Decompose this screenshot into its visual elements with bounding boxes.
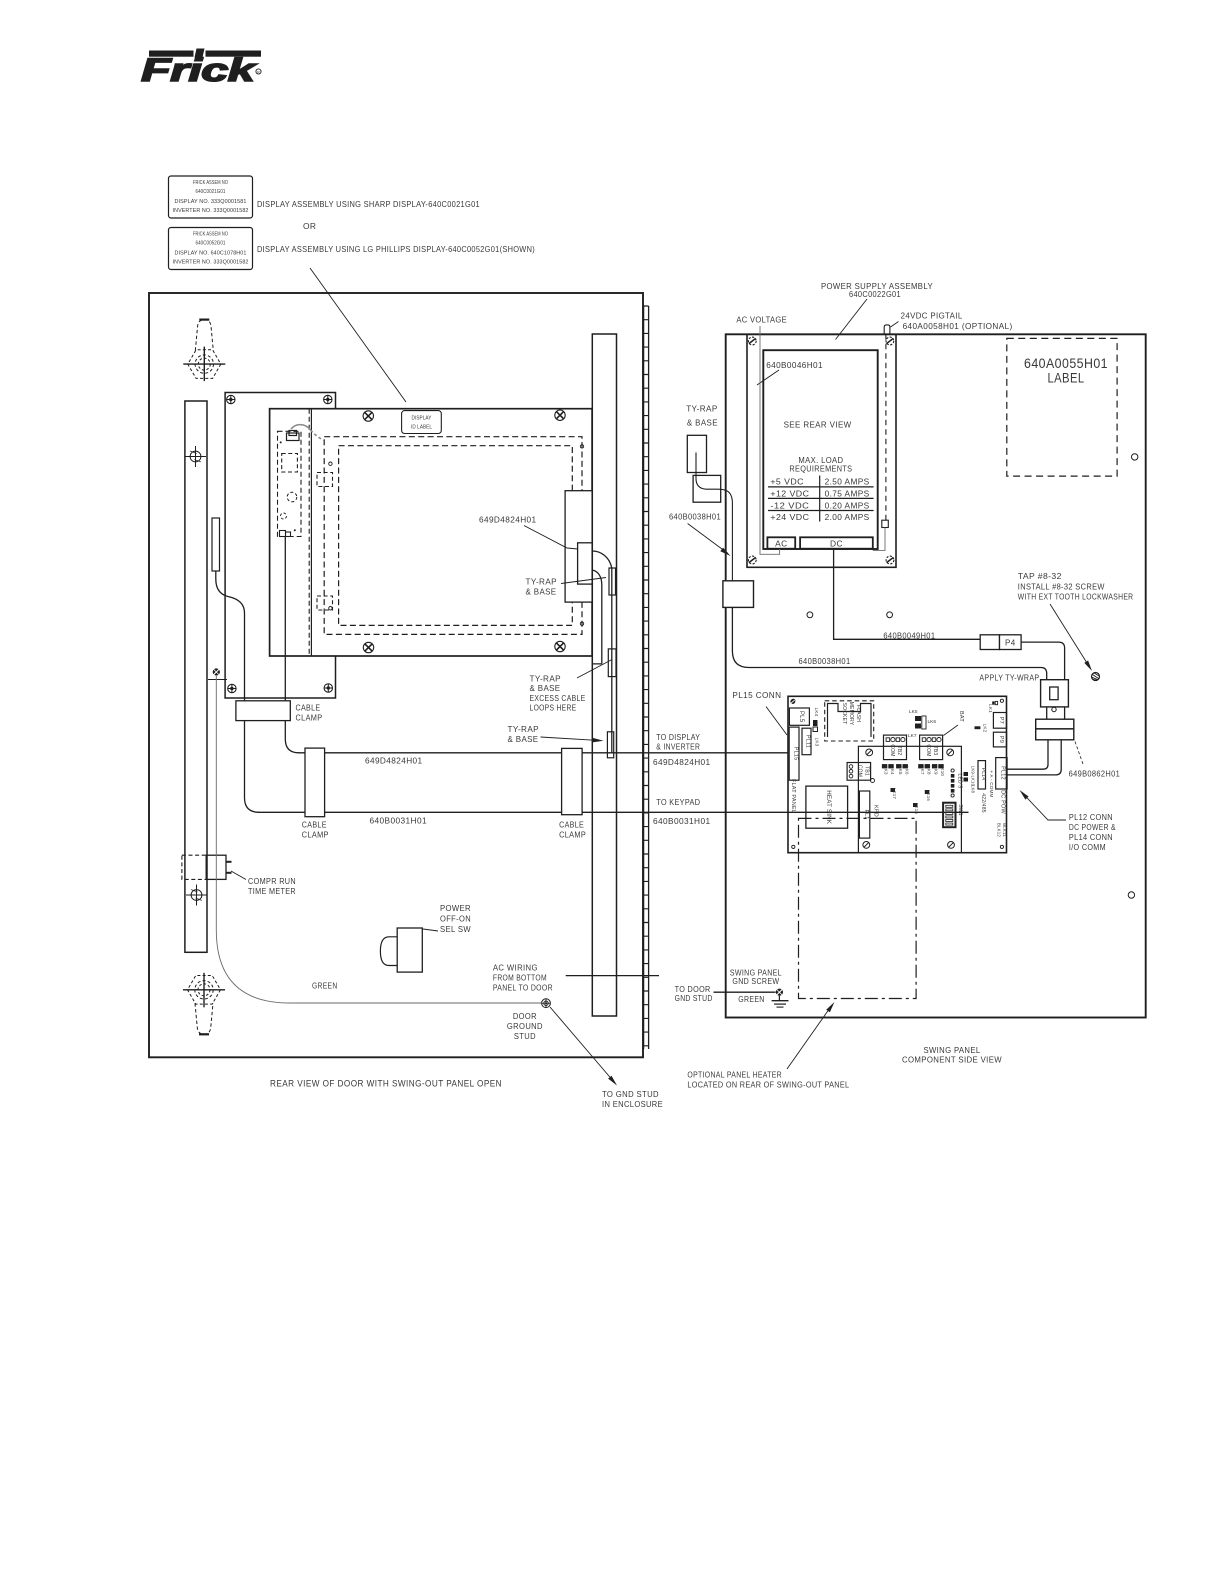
svg-text:P4: P4 bbox=[1005, 639, 1016, 648]
svg-text:PL14: PL14 bbox=[980, 768, 986, 780]
svg-text:TY-RAP: TY-RAP bbox=[686, 404, 718, 414]
svg-text:+ A - COMM: + A - COMM bbox=[989, 770, 994, 797]
svg-text:CABLE: CABLE bbox=[559, 819, 584, 829]
svg-text:INVERTER NO. 333Q0001582: INVERTER NO. 333Q0001582 bbox=[173, 208, 249, 214]
svg-text:PL15 CONN: PL15 CONN bbox=[732, 690, 781, 700]
svg-text:2.00 AMPS: 2.00 AMPS bbox=[825, 512, 870, 522]
svg-text:COM: COM bbox=[889, 744, 895, 756]
svg-text:DISPLAY ASSEMBLY USING SHARP D: DISPLAY ASSEMBLY USING SHARP DISPLAY-640… bbox=[257, 199, 480, 209]
svg-text:640C0052G01: 640C0052G01 bbox=[196, 241, 226, 247]
svg-text:OR: OR bbox=[303, 221, 316, 231]
svg-text:P7: P7 bbox=[998, 717, 1004, 724]
svg-text:DISPLAY ASSEMBLY USING LG PHIL: DISPLAY ASSEMBLY USING LG PHILLIPS DISPL… bbox=[257, 244, 535, 254]
svg-text:640B0031H01: 640B0031H01 bbox=[653, 816, 711, 826]
svg-text:TY-RAP: TY-RAP bbox=[530, 674, 562, 684]
svg-text:LK10: LK10 bbox=[940, 765, 945, 776]
svg-text:TY-RAP: TY-RAP bbox=[526, 577, 558, 587]
svg-text:AC WIRING: AC WIRING bbox=[493, 963, 538, 973]
svg-text:+12 VDC: +12 VDC bbox=[770, 488, 809, 498]
svg-text:LOOPS HERE: LOOPS HERE bbox=[530, 703, 577, 713]
svg-text:640B0038H01: 640B0038H01 bbox=[799, 656, 851, 666]
svg-text:LK6: LK6 bbox=[928, 719, 937, 725]
svg-text:FLASH: FLASH bbox=[855, 705, 861, 722]
svg-text:OPTIONAL PANEL HEATER: OPTIONAL PANEL HEATER bbox=[687, 1070, 782, 1080]
svg-text:FRICK ASSEM NO: FRICK ASSEM NO bbox=[193, 232, 228, 238]
svg-text:DISPLAY: DISPLAY bbox=[412, 416, 432, 422]
svg-text:FRICK ASSEM NO: FRICK ASSEM NO bbox=[193, 180, 228, 186]
svg-text:LK4: LK4 bbox=[890, 766, 895, 775]
svg-text:TAP #8-32: TAP #8-32 bbox=[1018, 571, 1062, 581]
svg-text:LK2: LK2 bbox=[983, 724, 988, 733]
svg-text:24VDC PIGTAIL: 24VDC PIGTAIL bbox=[901, 311, 963, 321]
svg-text:COM: COM bbox=[925, 744, 931, 756]
svg-text:LK8: LK8 bbox=[971, 785, 976, 794]
svg-text:LK5: LK5 bbox=[898, 766, 903, 775]
svg-text:TIME METER: TIME METER bbox=[248, 886, 296, 896]
svg-text:PL12: PL12 bbox=[1000, 766, 1006, 780]
svg-text:TO KEYPAD: TO KEYPAD bbox=[656, 797, 700, 807]
svg-text:OFF-ON: OFF-ON bbox=[440, 914, 471, 924]
svg-text:BAT: BAT bbox=[958, 711, 964, 722]
svg-text:& BASE: & BASE bbox=[530, 683, 561, 693]
svg-text:LK5: LK5 bbox=[909, 709, 918, 715]
svg-text:PL12 CONN: PL12 CONN bbox=[1069, 812, 1113, 822]
svg-text:LK4: LK4 bbox=[814, 708, 819, 717]
svg-text:P9: P9 bbox=[998, 736, 1004, 743]
svg-text:SEE REAR VIEW: SEE REAR VIEW bbox=[784, 420, 852, 430]
svg-text:LK3: LK3 bbox=[815, 738, 820, 747]
svg-text:DC POWER &: DC POWER & bbox=[1069, 822, 1116, 832]
svg-text:2.50 AMPS: 2.50 AMPS bbox=[825, 477, 870, 487]
svg-text:640C0021G01: 640C0021G01 bbox=[196, 189, 226, 195]
svg-text:LABEL: LABEL bbox=[1048, 370, 1085, 386]
svg-text:FLAT PANEL: FLAT PANEL bbox=[790, 779, 796, 813]
svg-text:TO GND STUD: TO GND STUD bbox=[602, 1089, 659, 1099]
svg-text:& BASE: & BASE bbox=[687, 418, 718, 428]
svg-text:CLAMP: CLAMP bbox=[559, 829, 586, 839]
svg-text:-12 VDC: -12 VDC bbox=[770, 500, 809, 510]
svg-text:MEMORY: MEMORY bbox=[848, 702, 854, 726]
svg-text:AC VOLTAGE: AC VOLTAGE bbox=[736, 315, 787, 325]
svg-text:APPLY TY-WRAP: APPLY TY-WRAP bbox=[979, 673, 1039, 683]
svg-text:PL11: PL11 bbox=[805, 735, 811, 748]
svg-text:& INVERTER: & INVERTER bbox=[656, 742, 700, 752]
svg-text:LK17: LK17 bbox=[892, 788, 897, 799]
svg-text:LK16: LK16 bbox=[926, 790, 931, 801]
svg-text:PL15: PL15 bbox=[792, 747, 798, 761]
svg-text:SOCKET: SOCKET bbox=[841, 703, 847, 725]
svg-text:SWING PANEL: SWING PANEL bbox=[924, 1045, 981, 1055]
svg-text:TB3: TB3 bbox=[932, 746, 938, 756]
svg-text:COMPR RUN: COMPR RUN bbox=[248, 876, 296, 886]
svg-text:DISPLAY NO. 333Q0001581: DISPLAY NO. 333Q0001581 bbox=[175, 199, 247, 205]
svg-text:PL5: PL5 bbox=[798, 711, 804, 723]
svg-text:I/O COMM: I/O COMM bbox=[1069, 842, 1106, 852]
svg-text:640B0031H01: 640B0031H01 bbox=[370, 816, 428, 826]
svg-text:IN ENCLOSURE: IN ENCLOSURE bbox=[602, 1099, 663, 1109]
svg-text:649D4824H01: 649D4824H01 bbox=[653, 757, 711, 767]
svg-text:COM: COM bbox=[857, 765, 863, 777]
svg-text:DISPLAY NO. 640C1078H01: DISPLAY NO. 640C1078H01 bbox=[175, 250, 247, 256]
svg-text:INSTALL #8-32 SCREW: INSTALL #8-32 SCREW bbox=[1018, 581, 1105, 591]
svg-text:LK9: LK9 bbox=[934, 766, 939, 775]
svg-text:LK7: LK7 bbox=[908, 733, 917, 739]
svg-text:DOOR: DOOR bbox=[513, 1011, 537, 1021]
svg-text:CLAMP: CLAMP bbox=[302, 829, 329, 839]
svg-text:SW1: SW1 bbox=[957, 804, 963, 815]
svg-text:GND SCREW: GND SCREW bbox=[732, 976, 779, 986]
svg-text:0.20 AMPS: 0.20 AMPS bbox=[825, 500, 870, 510]
svg-text:LED'S: LED'S bbox=[957, 773, 963, 788]
svg-text:AC: AC bbox=[775, 538, 787, 548]
svg-text:Frick: Frick bbox=[141, 52, 258, 88]
svg-text:SEL SW: SEL SW bbox=[440, 924, 471, 934]
svg-text:GROUND: GROUND bbox=[507, 1021, 543, 1031]
svg-text:DC: DC bbox=[830, 538, 843, 548]
svg-text:PANEL TO DOOR: PANEL TO DOOR bbox=[493, 983, 553, 993]
svg-text:REQUIREMENTS: REQUIREMENTS bbox=[789, 464, 852, 474]
svg-text:REAR VIEW OF DOOR WITH SWING-O: REAR VIEW OF DOOR WITH SWING-OUT PANEL O… bbox=[270, 1079, 502, 1089]
svg-text:PL14 CONN: PL14 CONN bbox=[1069, 832, 1113, 842]
svg-text:LK1: LK1 bbox=[988, 704, 993, 713]
svg-text:TY-RAP: TY-RAP bbox=[508, 724, 540, 734]
svg-text:640B0049H01: 640B0049H01 bbox=[883, 631, 935, 641]
svg-text:LK9-LK10: LK9-LK10 bbox=[971, 766, 976, 787]
svg-text:ID LABEL: ID LABEL bbox=[411, 424, 432, 430]
svg-text:KPD: KPD bbox=[873, 805, 879, 817]
svg-text:422/485: 422/485 bbox=[980, 793, 986, 812]
svg-text:TO DISPLAY: TO DISPLAY bbox=[656, 732, 700, 742]
svg-text:& BASE: & BASE bbox=[508, 734, 539, 744]
svg-text:649B0862H01: 649B0862H01 bbox=[1069, 769, 1121, 779]
svg-text:COMPONENT SIDE VIEW: COMPONENT SIDE VIEW bbox=[902, 1055, 1002, 1065]
svg-text:640B0038H01: 640B0038H01 bbox=[669, 511, 721, 521]
svg-text:WITH EXT TOOTH LOCKWASHER: WITH EXT TOOTH LOCKWASHER bbox=[1018, 592, 1134, 602]
svg-text:EXCESS CABLE: EXCESS CABLE bbox=[530, 693, 586, 703]
svg-text:GREEN: GREEN bbox=[738, 994, 765, 1004]
svg-text:TB2: TB2 bbox=[896, 746, 902, 756]
svg-text:0.75 AMPS: 0.75 AMPS bbox=[825, 488, 870, 498]
svg-text:LK7: LK7 bbox=[920, 766, 925, 775]
svg-text:DC POW: DC POW bbox=[1000, 790, 1006, 814]
svg-text:+24 VDC: +24 VDC bbox=[770, 512, 809, 522]
svg-text:HEAT SINK: HEAT SINK bbox=[825, 790, 832, 825]
svg-text:& BASE: & BASE bbox=[526, 587, 557, 597]
svg-text:GND STUD: GND STUD bbox=[675, 993, 713, 1003]
svg-text:LOCATED ON REAR OF SWING-OUT P: LOCATED ON REAR OF SWING-OUT PANEL bbox=[687, 1080, 849, 1090]
svg-text:BLK12: BLK12 bbox=[997, 823, 1002, 838]
svg-text:640A0058H01 (OPTIONAL): 640A0058H01 (OPTIONAL) bbox=[903, 321, 1013, 331]
svg-text:640C0022G01: 640C0022G01 bbox=[849, 289, 901, 299]
svg-text:TB1: TB1 bbox=[864, 766, 870, 776]
svg-text:FROM BOTTOM: FROM BOTTOM bbox=[493, 973, 547, 983]
svg-text:640B0046H01: 640B0046H01 bbox=[766, 360, 823, 370]
svg-text:LK8: LK8 bbox=[926, 766, 931, 775]
svg-text:CLAMP: CLAMP bbox=[296, 712, 323, 722]
svg-text:INVERTER NO. 333Q0001582: INVERTER NO. 333Q0001582 bbox=[173, 260, 249, 266]
svg-text:+5 VDC: +5 VDC bbox=[770, 477, 804, 487]
svg-text:BLK11: BLK11 bbox=[1002, 823, 1007, 837]
svg-text:CABLE: CABLE bbox=[296, 702, 321, 712]
svg-text:GREEN: GREEN bbox=[312, 981, 338, 991]
svg-text:STUD: STUD bbox=[514, 1031, 536, 1041]
svg-text:LK3: LK3 bbox=[884, 766, 889, 775]
svg-text:649D4824H01: 649D4824H01 bbox=[479, 515, 537, 525]
svg-text:POWER: POWER bbox=[440, 903, 471, 913]
svg-text:LK6: LK6 bbox=[904, 766, 909, 775]
svg-text:649D4824H01: 649D4824H01 bbox=[365, 756, 423, 766]
svg-text:CABLE: CABLE bbox=[302, 819, 327, 829]
